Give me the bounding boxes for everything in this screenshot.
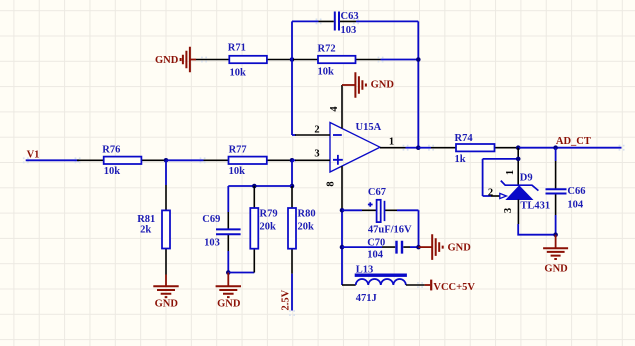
svg-text:10k: 10k <box>318 67 335 78</box>
wire R72 to feedback right <box>381 59 419 61</box>
wire feedback left to op-amp pin2 <box>292 134 296 136</box>
resistor R81 <box>137 160 170 274</box>
resistor R74 <box>431 133 518 165</box>
svg-text:L13: L13 <box>356 264 374 275</box>
junction feedback tap <box>516 157 521 162</box>
svg-text:V1: V1 <box>27 150 40 161</box>
wire op-amp output to junction <box>406 147 419 149</box>
resistor R76 <box>77 145 166 178</box>
svg-text:GND: GND <box>217 299 241 310</box>
svg-text:GND: GND <box>155 55 179 66</box>
svg-text:GND: GND <box>371 80 395 91</box>
svg-text:R81: R81 <box>137 214 155 225</box>
svg-text:R71: R71 <box>228 43 246 54</box>
junction bottom right <box>553 232 558 237</box>
svg-text:GND: GND <box>544 263 568 274</box>
wire divider bus horizontal <box>228 185 292 187</box>
capacitor C70 <box>342 238 419 261</box>
capacitor C67 <box>342 187 419 247</box>
wire op-amp pin8 column <box>341 210 343 285</box>
junction R74 right <box>516 145 521 150</box>
wire C69 to R79 bottom <box>228 272 254 274</box>
svg-text:1: 1 <box>389 136 394 147</box>
svg-text:U15A: U15A <box>356 122 382 133</box>
wire R80 to 2.5V <box>291 274 293 311</box>
svg-text:2: 2 <box>488 187 493 198</box>
svg-text:R72: R72 <box>318 44 336 55</box>
svg-text:VCC+5V: VCC+5V <box>433 282 475 293</box>
power port VCC+5V <box>425 280 476 293</box>
svg-text:R77: R77 <box>229 145 247 156</box>
junction R71/R72 left <box>290 57 295 62</box>
power port GND at C70 <box>419 234 472 260</box>
net label AD_CT <box>556 136 591 147</box>
junction at R77 right <box>290 158 295 163</box>
wire junction down to divider bus <box>291 160 293 186</box>
wire C69 bottom <box>227 251 229 273</box>
svg-text:AD_CT: AD_CT <box>556 136 591 147</box>
wire R74 to AD_CT <box>518 147 621 149</box>
svg-text:GND: GND <box>155 299 179 310</box>
svg-text:TL431: TL431 <box>520 200 550 211</box>
svg-text:4: 4 <box>329 106 340 112</box>
resistor R79 <box>250 186 277 273</box>
svg-text:R80: R80 <box>298 209 316 220</box>
svg-text:10k: 10k <box>229 166 246 177</box>
svg-text:103: 103 <box>341 25 357 36</box>
capacitor C69 <box>202 212 240 251</box>
svg-text:C67: C67 <box>368 187 386 198</box>
svg-text:104: 104 <box>567 199 584 210</box>
resistor R72 <box>293 44 381 78</box>
resistor R71 <box>196 43 292 79</box>
junction divider bus at R79 <box>252 184 257 189</box>
svg-text:R79: R79 <box>260 209 278 220</box>
junction R72 right <box>416 57 421 62</box>
power port GND at op-amp pin4 <box>342 72 394 98</box>
svg-text:20k: 20k <box>298 222 315 233</box>
junction C70 right <box>416 245 421 250</box>
resistor R80 <box>288 186 316 274</box>
svg-text:2.5V: 2.5V <box>281 289 292 310</box>
svg-text:471J: 471J <box>356 293 377 304</box>
svg-text:47uF/16V: 47uF/16V <box>368 224 412 235</box>
net label V1 <box>27 150 40 161</box>
junction C66 top <box>553 145 558 150</box>
wire V1 to R76 <box>26 159 79 161</box>
wire feedback left vertical <box>291 21 293 135</box>
TL431 D9 <box>483 148 551 224</box>
junction divider bus at R80 <box>290 184 295 189</box>
wire R77 to op-amp pin3 <box>292 159 296 161</box>
svg-text:3: 3 <box>314 149 319 160</box>
wire feedback right vertical <box>417 21 419 147</box>
junction C69 bottom <box>226 270 231 275</box>
svg-text:D9: D9 <box>520 173 533 184</box>
svg-text:10k: 10k <box>104 166 121 177</box>
svg-text:R74: R74 <box>455 133 474 144</box>
wire top loop left <box>292 20 319 22</box>
svg-text:GND: GND <box>448 242 472 253</box>
wire R76 to R77 <box>166 159 204 161</box>
svg-text:C63: C63 <box>341 11 359 22</box>
wire top loop right <box>356 20 418 22</box>
svg-text:104: 104 <box>367 250 384 261</box>
wire TL431 anode to GND node <box>518 224 555 235</box>
ground GND below C69 <box>216 273 241 310</box>
junction at R76 right <box>164 158 169 163</box>
svg-text:C69: C69 <box>202 214 220 225</box>
wire output to R74 <box>418 147 431 149</box>
svg-text:C70: C70 <box>367 238 385 249</box>
svg-text:20k: 20k <box>260 222 277 233</box>
svg-text:103: 103 <box>204 237 220 248</box>
svg-text:2: 2 <box>314 124 319 135</box>
inductor L13 <box>342 264 425 304</box>
svg-text:1k: 1k <box>455 154 466 165</box>
svg-text:1: 1 <box>505 170 516 175</box>
svg-text:8: 8 <box>326 181 337 186</box>
power port GND at R71 <box>155 47 196 73</box>
capacitor C66 <box>546 148 586 235</box>
ground GND below R81 <box>153 275 178 310</box>
op-amp U15A <box>295 85 406 210</box>
junction C67 left <box>340 208 345 213</box>
svg-text:R76: R76 <box>102 145 120 156</box>
wire bus down to C69 <box>227 186 229 212</box>
svg-text:C66: C66 <box>567 186 585 197</box>
junction op-amp output <box>416 145 421 150</box>
capacitor C63 <box>319 11 359 36</box>
svg-text:10k: 10k <box>230 68 247 79</box>
junction C70 left <box>340 245 345 250</box>
svg-text:3: 3 <box>503 208 514 213</box>
svg-text:2k: 2k <box>140 225 151 236</box>
net label 2.5V <box>281 289 292 310</box>
ground GND bottom right <box>543 235 568 275</box>
resistor R77 <box>204 145 293 178</box>
